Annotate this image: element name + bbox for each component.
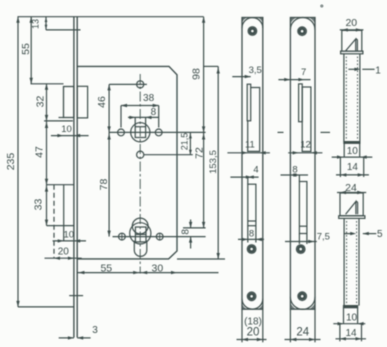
center line vertical (follower axis) <box>139 74 141 274</box>
dimension 5 line <box>344 233 352 235</box>
wire: tick at cylinder square top <box>183 227 206 229</box>
strike plate 1 screw hole middle <box>247 245 256 254</box>
strike plate 2 screw hole top <box>298 27 307 36</box>
dimension 7 line <box>278 79 310 81</box>
deadbolt head front face <box>63 185 65 241</box>
strike plate 2 top arc <box>290 17 315 29</box>
profile1 flange <box>341 51 363 54</box>
strike plate 1 deadbolt opening <box>248 184 256 226</box>
strike plate 2 width extension lines <box>289 309 291 342</box>
dimension 14 (profile2) line <box>336 338 367 340</box>
profile2 channel inner dashed lines <box>346 221 348 305</box>
svg-text:32: 32 <box>34 96 46 108</box>
latch bolt body behind faceplate <box>77 86 87 118</box>
svg-text:11: 11 <box>245 139 255 150</box>
svg-text:7: 7 <box>301 67 306 78</box>
dimension 1 (plate thickness) line <box>348 68 355 70</box>
hole left of follower <box>118 129 125 136</box>
svg-text:55: 55 <box>20 43 32 55</box>
dimension 38 extension lines <box>120 106 122 128</box>
svg-text:98: 98 <box>190 68 202 80</box>
strike plate 1 screw hole top <box>248 27 257 36</box>
hole right of cylinder <box>156 233 163 240</box>
wire: 13 extension line <box>46 29 81 31</box>
strike plate 1 bottom arc <box>242 299 263 309</box>
profile2 flange <box>339 216 365 219</box>
dimension 4 line <box>230 176 258 178</box>
profile2 10-extension lines <box>343 308 345 324</box>
profile2 channel bottom bar <box>344 306 358 308</box>
strike plate 1 deadbolt opening extension lines <box>247 226 249 243</box>
strike plate 2 screw hole bottom <box>298 292 307 301</box>
dimension 24 (plate2 width) line <box>285 339 321 341</box>
svg-text:8: 8 <box>249 229 254 240</box>
dimension 12 line <box>288 152 322 154</box>
dimension 72 line <box>203 132 205 228</box>
svg-text:47: 47 <box>33 146 45 158</box>
svg-text:8: 8 <box>151 107 157 118</box>
strike plate 2 screw hole middle <box>296 245 305 254</box>
screw hole below follower <box>137 151 144 158</box>
profile1 channel inner dashed lines <box>345 57 347 141</box>
svg-text:10: 10 <box>61 124 72 135</box>
strike plate 1 latch opening <box>248 88 260 152</box>
dimension 38 line <box>121 105 159 107</box>
cylinder square mid line <box>135 233 146 235</box>
dimension 20 (profile1) line <box>340 29 364 31</box>
wire: 153.5 bottom extension <box>177 258 225 260</box>
svg-text:13: 13 <box>31 19 41 29</box>
hole right of follower <box>155 129 162 136</box>
wire: faceplate bottom line to 235 dim <box>18 306 74 308</box>
svg-text:30: 30 <box>152 263 164 275</box>
svg-text:78: 78 <box>98 179 110 191</box>
svg-text:33: 33 <box>33 199 45 211</box>
dimension 98 line <box>203 17 205 133</box>
cylinder oval lower part <box>134 241 147 257</box>
profile1 latch lip triangle <box>346 39 358 51</box>
wire: faceplate break tick <box>69 295 83 297</box>
dimension 13 line <box>45 17 47 30</box>
dimension 10 (profile1) line <box>332 156 373 158</box>
dimension 8 (cylinder offset) arrows <box>190 220 192 228</box>
svg-text:7,5: 7,5 <box>317 232 330 243</box>
svg-text:14: 14 <box>347 162 359 173</box>
wire: cylinder axis horizontal line <box>113 236 206 238</box>
wire: line through top hole <box>109 83 147 85</box>
strike plate 1 top arc <box>242 18 263 28</box>
svg-text:5: 5 <box>377 229 383 240</box>
svg-text:20: 20 <box>247 327 260 339</box>
svg-text:20: 20 <box>58 246 70 257</box>
svg-text:55: 55 <box>100 263 112 275</box>
dimension 21.5 line <box>189 132 191 154</box>
svg-text:10: 10 <box>346 313 358 324</box>
svg-text:235: 235 <box>5 153 17 171</box>
dimension 8 extension lines <box>134 117 136 126</box>
lock case outline <box>77 66 177 259</box>
profile1 14-extension lines <box>339 157 341 177</box>
profile2 channel walls <box>343 218 345 305</box>
dimension 78 line <box>108 132 110 236</box>
wire: top reference line <box>18 16 204 18</box>
dimension 3.5 line <box>232 76 250 78</box>
svg-text:10: 10 <box>64 229 75 240</box>
faceplate edge view (long strip) <box>73 17 75 338</box>
dimension 20 (deadbolt throw) line <box>45 257 82 259</box>
dimension 3 (faceplate thickness) arrows <box>59 337 74 339</box>
svg-text:1: 1 <box>375 65 381 76</box>
svg-text:46: 46 <box>96 96 108 108</box>
wire: 32/47 extension line <box>44 120 73 122</box>
svg-text:4: 4 <box>253 165 258 176</box>
svg-text:21,5: 21,5 <box>180 133 190 151</box>
svg-text:153,5: 153,5 <box>208 150 219 174</box>
dimension 7.5 line <box>285 241 317 243</box>
follower square hole <box>135 127 145 138</box>
follower circle <box>131 123 150 142</box>
dimension 10 (deadbolt) line <box>53 240 86 242</box>
dimension 32 line <box>46 84 48 121</box>
dimension 33 line <box>46 185 48 226</box>
strike plate 1 outline <box>242 18 263 310</box>
deadbolt (front view) outline <box>47 184 74 186</box>
strike plate 1 latch lip (folded) <box>247 84 251 121</box>
dimension 14 (profile1) line <box>336 174 369 176</box>
strike plate 2 latch lip (folded) <box>299 84 303 122</box>
profile1 channel bottom bar <box>344 142 360 144</box>
dimension 11 line <box>227 152 270 154</box>
dimension 55 line <box>30 17 32 84</box>
svg-text:24: 24 <box>296 327 309 339</box>
strike plate 2 deadbolt opening <box>299 182 307 234</box>
dimension 235 line <box>17 17 19 307</box>
svg-text:12: 12 <box>300 139 311 150</box>
dimension 55/30 line <box>77 272 218 274</box>
dimension 8 (plate2) line <box>281 174 309 176</box>
deadbolt retracted face (dashed) <box>53 185 55 259</box>
strike plate 2 latch opening <box>302 87 311 151</box>
dimension 46 line <box>108 84 110 132</box>
wire: follower axis horizontal line <box>109 131 206 133</box>
wire: line from lower hole to 21.5 dim <box>144 154 193 156</box>
screw hole top of case <box>137 81 144 88</box>
dimension 153.5 line <box>217 66 219 259</box>
dimension 47 line <box>46 121 48 185</box>
scan speck <box>321 5 323 7</box>
svg-text:20: 20 <box>345 17 357 29</box>
svg-text:3,5: 3,5 <box>249 65 262 76</box>
cylinder square hole <box>135 227 146 242</box>
profile2 14-extension lines <box>339 324 341 342</box>
wire: 55/32 extension line <box>31 83 64 85</box>
cylinder profile circle <box>130 223 151 244</box>
latch bolt head (front view) <box>64 87 74 118</box>
svg-text:10: 10 <box>347 146 359 157</box>
dimension 20 (plate1 width) line <box>237 339 267 341</box>
strike plate 2 bottom arc <box>290 297 315 309</box>
dimension 10 (latch protrusion) line <box>51 135 89 137</box>
svg-text:38: 38 <box>143 93 155 104</box>
dimension 8 (plate1) line <box>238 238 264 240</box>
profile1 channel walls <box>343 54 345 142</box>
wire: 153.5 top extension <box>204 65 219 67</box>
cylinder follower circle <box>132 218 148 234</box>
strike plate 2 outline <box>290 18 315 310</box>
svg-text:14: 14 <box>345 328 357 339</box>
profile2 box outline <box>340 193 363 216</box>
svg-text:72: 72 <box>193 147 205 159</box>
svg-text:8: 8 <box>181 229 192 235</box>
strike plate 2 deadbolt opening extension lines <box>298 234 300 245</box>
dimension 10 (profile2) line <box>333 323 365 325</box>
wire: follower axis dashes between views <box>278 131 284 133</box>
svg-text:3: 3 <box>92 325 98 336</box>
hole left of cylinder <box>119 233 126 240</box>
strike plate 1 screw hole bottom <box>247 292 256 301</box>
profile1 box outline <box>342 30 362 51</box>
profile1 10-extension lines <box>343 143 345 157</box>
profile2 latch lip triangle <box>346 201 358 214</box>
dimension 24 (profile2) line <box>337 192 366 194</box>
strike plate 1 width extension lines <box>241 309 243 342</box>
dimension 8 (follower square) line <box>128 116 159 118</box>
